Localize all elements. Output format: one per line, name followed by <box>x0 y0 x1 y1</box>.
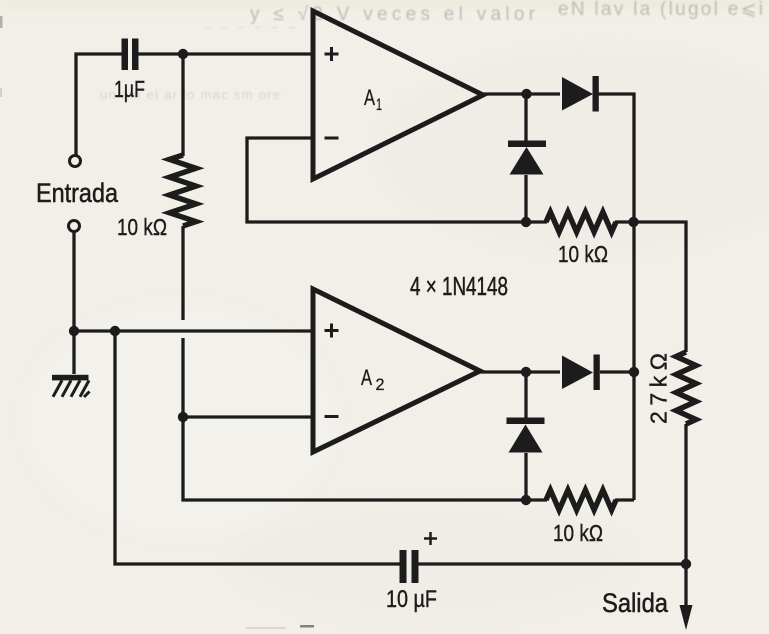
svg-text:10 kΩ: 10 kΩ <box>117 214 167 240</box>
svg-text:10 µF: 10 µF <box>386 586 437 613</box>
svg-text:2: 2 <box>376 375 385 394</box>
svg-text:A: A <box>364 85 375 110</box>
svg-text:A: A <box>361 365 372 390</box>
svg-text:1: 1 <box>376 95 382 114</box>
svg-text:1µF: 1µF <box>114 76 145 102</box>
svg-text:4 × 1N4148: 4 × 1N4148 <box>410 271 508 301</box>
svg-text:10 kΩ: 10 kΩ <box>558 241 608 267</box>
svg-text:10 kΩ: 10 kΩ <box>553 520 603 546</box>
svg-text:Salida: Salida <box>602 588 669 618</box>
svg-text:eN lav la (lugol e⩽i: eN lav la (lugol e⩽i <box>558 0 763 20</box>
svg-text:Entrada: Entrada <box>36 178 119 208</box>
